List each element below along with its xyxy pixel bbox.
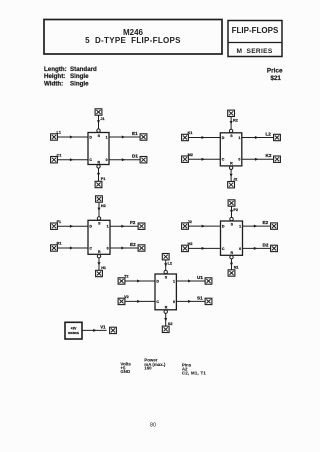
pin D2 (0 output FF4) <box>271 245 278 251</box>
svg-text:R: R <box>230 162 233 166</box>
svg-text:0: 0 <box>239 247 241 251</box>
pin U1 (1 output FF5) <box>205 278 212 284</box>
svg-text:Single: Single <box>70 81 89 88</box>
svg-text:Width:: Width: <box>44 81 63 88</box>
svg-text:D: D <box>222 136 225 140</box>
wire 0 output FF3 <box>110 242 138 250</box>
svg-text:GND: GND <box>120 369 130 374</box>
wire D input FF5 <box>125 280 155 283</box>
wire C input FF3 <box>57 247 88 250</box>
svg-text:J2: J2 <box>233 177 237 181</box>
wire S input FF2 <box>229 116 232 132</box>
svg-text:K2: K2 <box>266 153 272 158</box>
svg-text:S2: S2 <box>168 322 173 326</box>
svg-text:U1: U1 <box>197 275 203 280</box>
wire 1 output FF3 <box>110 220 138 228</box>
svg-text:Height:: Height: <box>44 73 65 80</box>
svg-text:D: D <box>89 136 92 140</box>
wire S input FF1 <box>97 115 100 132</box>
svg-text:C: C <box>89 246 92 250</box>
svg-text:R: R <box>165 306 168 310</box>
pin P2 (set input FF4) <box>228 200 238 212</box>
svg-text:5 D-TYPE FLIP-FLOPS: 5 D-TYPE FLIP-FLOPS <box>85 36 181 45</box>
svg-text:E2: E2 <box>263 220 269 225</box>
svg-text:D: D <box>222 225 225 229</box>
svg-text:D2: D2 <box>263 242 269 247</box>
svg-text:S1: S1 <box>197 295 203 300</box>
pin H2 (set input FF3) <box>96 196 106 208</box>
wire 1 output FF2 <box>242 132 274 140</box>
svg-text:C: C <box>156 300 159 304</box>
svg-text:Price: Price <box>267 67 283 74</box>
pin L2 (1 output FF2) <box>274 134 281 140</box>
pin F1 (D input FF3) <box>51 220 61 230</box>
pin V1 <box>110 327 117 333</box>
svg-text:H1: H1 <box>101 266 106 270</box>
svg-text:R1: R1 <box>57 242 62 246</box>
svg-text:L1: L1 <box>57 131 61 135</box>
svg-text:1: 1 <box>239 225 241 229</box>
wire 1 output FF4 <box>243 220 271 228</box>
svg-text:C: C <box>222 158 225 162</box>
svg-text:E1: E1 <box>132 131 138 136</box>
svg-text:J2: J2 <box>188 220 192 224</box>
wire 0 output FF1 <box>109 154 140 162</box>
svg-text:0: 0 <box>107 246 109 250</box>
flip-flop FF1 <box>88 133 109 165</box>
pin V2 (C input FF5) <box>118 295 129 305</box>
module info <box>44 66 97 88</box>
pin K1 (D input FF2) <box>182 131 193 141</box>
svg-text:M SERIES: M SERIES <box>236 48 272 55</box>
svg-text:P2: P2 <box>233 208 238 212</box>
svg-text:C1: C1 <box>57 153 62 157</box>
pin E2 (1 output FF4) <box>271 223 278 229</box>
svg-text:T2: T2 <box>124 275 128 279</box>
pin J1 (set input FF1) <box>95 109 105 121</box>
svg-text:160: 160 <box>144 365 152 370</box>
wire 0 output FF5 <box>176 295 205 303</box>
svg-text:Single: Single <box>70 73 89 80</box>
svg-text:H2: H2 <box>188 242 193 246</box>
wire D input FF3 <box>57 225 88 228</box>
pin E1 (1 output FF1) <box>140 134 147 140</box>
svg-text:1: 1 <box>107 225 109 229</box>
svg-text:E2: E2 <box>130 242 136 247</box>
pin S1 (0 output FF5) <box>205 298 212 304</box>
wire 0 output FF4 <box>243 242 271 250</box>
svg-text:H2: H2 <box>101 204 106 208</box>
wire C input FF1 <box>57 158 88 161</box>
svg-text:Standard: Standard <box>70 66 97 73</box>
pin R2 (set input FF2) <box>228 110 238 122</box>
price <box>267 67 283 82</box>
pin N1 (reset FF4) <box>228 266 238 277</box>
svg-text:F2: F2 <box>130 220 136 225</box>
wire 1 output FF1 <box>109 131 140 139</box>
wire C input FF2 <box>188 158 220 161</box>
wire S input FF5 <box>164 260 167 274</box>
wire R output FF3 <box>97 255 100 271</box>
svg-text:C2, M1, T1: C2, M1, T1 <box>182 371 207 376</box>
wire D input FF2 <box>188 136 220 139</box>
pin K2 (0 output FF2) <box>274 156 281 162</box>
svg-text:R: R <box>230 251 233 255</box>
svg-text:R: R <box>97 160 100 164</box>
svg-text:R2: R2 <box>233 118 238 122</box>
svg-text:R: R <box>98 250 101 254</box>
svg-text:D: D <box>156 280 159 284</box>
pin E2 (0 output FF3) <box>138 245 145 251</box>
+3V source U6 <box>65 322 82 339</box>
svg-text:M2: M2 <box>188 153 193 157</box>
wire R output FF4 <box>230 256 233 270</box>
svg-text:L2: L2 <box>168 262 172 266</box>
pin D1 (0 output FF1) <box>140 157 147 163</box>
series box <box>228 21 282 57</box>
pin H1 (reset FF3) <box>96 266 106 277</box>
power table <box>120 358 206 376</box>
svg-text:80: 80 <box>150 423 156 429</box>
svg-text:1: 1 <box>238 136 240 140</box>
svg-text:J1: J1 <box>100 117 104 121</box>
pin P1 (reset FF1) <box>95 177 105 188</box>
wire D input FF4 <box>188 225 220 228</box>
pin L1 (D input FF1) <box>51 131 61 141</box>
svg-text:0: 0 <box>106 158 108 162</box>
svg-text:P1: P1 <box>101 177 106 181</box>
svg-text:V1: V1 <box>100 324 106 329</box>
wire S input FF4 <box>230 206 233 221</box>
wire 0 output FF2 <box>242 153 274 161</box>
wire 1 output FF5 <box>176 275 205 283</box>
title box <box>44 20 222 55</box>
svg-text:D1: D1 <box>132 154 138 159</box>
svg-text:$21: $21 <box>270 75 281 82</box>
pin H2 (C input FF4) <box>182 242 193 251</box>
svg-text:V2: V2 <box>124 295 129 299</box>
flip-flop FF2 <box>220 133 242 166</box>
svg-text:K1: K1 <box>188 131 193 135</box>
flip-flop FF4 <box>221 221 243 255</box>
pin L2 (set input FF5) <box>162 254 172 266</box>
wire S input FF3 <box>97 202 100 220</box>
svg-text:L2: L2 <box>266 132 272 137</box>
wire C input FF5 <box>125 300 155 303</box>
svg-text:FLIP-FLOPS: FLIP-FLOPS <box>232 26 279 35</box>
wire D input FF1 <box>57 136 88 139</box>
pin C1 (C input FF1) <box>51 153 62 163</box>
svg-text:F1: F1 <box>57 220 61 224</box>
pin S2 (reset FF5) <box>162 322 172 333</box>
svg-text:N1: N1 <box>234 266 239 270</box>
svg-text:+3V: +3V <box>71 327 78 331</box>
wire R output FF1 <box>97 165 100 182</box>
svg-text:Length:: Length: <box>44 66 67 73</box>
pin R1 (C input FF3) <box>51 242 62 252</box>
pin T2 (D input FF5) <box>118 275 128 284</box>
svg-text:1: 1 <box>173 280 175 284</box>
wire R output FF2 <box>229 166 232 182</box>
pin M2 (C input FF2) <box>182 153 193 163</box>
pin J2 (D input FF4) <box>182 220 192 229</box>
svg-text:D: D <box>89 225 92 229</box>
svg-text:1: 1 <box>106 136 108 140</box>
flip-flop FF5 <box>155 274 176 310</box>
pin J2 (reset FF2) <box>228 177 238 188</box>
svg-text:SOURCE: SOURCE <box>68 331 79 335</box>
pin F2 (1 output FF3) <box>138 223 145 229</box>
wire C input FF4 <box>188 247 220 250</box>
wire R output FF5 <box>164 310 167 326</box>
page number <box>150 423 156 429</box>
svg-text:0: 0 <box>173 300 175 304</box>
wire V1 output <box>82 324 107 332</box>
svg-text:C: C <box>89 158 92 162</box>
flip-flop FF3 <box>88 220 110 254</box>
svg-text:0: 0 <box>238 158 240 162</box>
svg-text:C: C <box>222 247 225 251</box>
